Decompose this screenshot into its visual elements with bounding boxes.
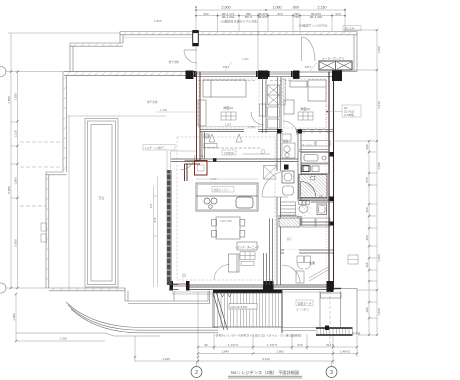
svg-text:600: 600 [293, 6, 299, 10]
misc small annotation marks [200, 57, 323, 241]
svg-text:物干金物: 物干金物 [169, 60, 180, 64]
svg-text:(S)欄間付き親子ドア(CF防): (S)欄間付き親子ドア(CF防) [221, 19, 258, 24]
svg-text:物干金物: 物干金物 [147, 100, 158, 104]
svg-text:CH=2,400: CH=2,400 [220, 219, 232, 223]
terrace door arc SW living [214, 265, 230, 281]
svg-text:1,500: 1,500 [154, 19, 162, 23]
bath (hatched) [299, 175, 327, 198]
island label box [212, 187, 234, 193]
svg-text:対面キッチン: 対面キッチン [214, 188, 230, 192]
closet west wall [201, 132, 203, 159]
svg-text:タイル貼り: タイル貼り [296, 308, 309, 312]
steel rack boxed label on terrace [143, 145, 175, 151]
svg-text:1,495: 1,495 [377, 162, 381, 170]
svg-text:150: 150 [149, 203, 153, 208]
accordion closet arcs bedroom2 [296, 129, 328, 133]
svg-text:870: 870 [277, 12, 282, 16]
svg-text:1,800: 1,800 [60, 337, 67, 341]
svg-text:760: 760 [294, 15, 299, 19]
balcony pillar [193, 31, 199, 46]
black wall blocks on east wall [329, 152, 335, 157]
svg-text:UB: UB [319, 194, 323, 198]
svg-text:1,455: 1,455 [377, 254, 381, 262]
svg-text:3: 3 [330, 370, 333, 376]
svg-text:1,500: 1,500 [7, 96, 11, 104]
boxed note top right [343, 26, 361, 31]
bedroom1 / closet wall [262, 77, 264, 133]
svg-text:1,760: 1,760 [248, 125, 255, 129]
svg-text:98+870: 98+870 [258, 15, 268, 19]
svg-text:655: 655 [365, 262, 369, 267]
svg-text:外水栓: 外水栓 [352, 332, 361, 336]
maroon corner box [195, 161, 208, 176]
PS hatched strip between bedrooms [281, 79, 285, 105]
svg-text:玄関: 玄関 [309, 260, 315, 265]
svg-text:≡スチール物干◯: ≡スチール物干◯ [145, 146, 166, 150]
svg-text:1,365: 1,365 [160, 108, 167, 112]
svg-text:1,137.5: 1,137.5 [228, 343, 238, 347]
grid circle 2 [191, 367, 202, 378]
parapet top stepped double line [120, 31, 357, 33]
toilet bottom [298, 221, 333, 223]
svg-text:(S)確認サッシ(W760): (S)確認サッシ(W760) [299, 23, 328, 28]
svg-text:キッチン: キッチン [302, 143, 313, 147]
svg-text:1,747.5: 1,747.5 [267, 343, 277, 347]
south wall with windows [169, 274, 334, 294]
svg-text:1,464.5: 1,464.5 [340, 350, 350, 354]
svg-text:洗面: 洗面 [283, 139, 289, 143]
svg-text:3,410: 3,410 [377, 101, 381, 109]
grid circle left top [0, 67, 6, 77]
svg-text:988.5: 988.5 [223, 65, 230, 69]
door gaps [244, 129, 258, 133]
entrance hall west wall [270, 219, 273, 286]
svg-text:1,100: 1,100 [377, 46, 381, 54]
parapet inner thin line [123, 36, 193, 38]
svg-text:90: 90 [204, 343, 208, 347]
west wall upper (bedroom1) [185, 72, 201, 182]
porch step hatched strip [316, 326, 353, 336]
washroom bottom wall [278, 215, 301, 217]
east wall [329, 72, 334, 291]
svg-text:布団収納: 布団収納 [224, 151, 235, 155]
in-room dim line bedroom1 [201, 62, 317, 127]
svg-text:1,460: 1,460 [377, 308, 381, 316]
svg-text:WIC: WIC [200, 154, 205, 158]
svg-text:240×16=3,840: 240×16=3,840 [231, 305, 248, 309]
svg-text:2: 2 [195, 370, 198, 376]
svg-text:2,150: 2,150 [318, 6, 327, 10]
svg-text:970: 970 [335, 12, 340, 16]
svg-text:(7.58坪): (7.58坪) [344, 113, 354, 117]
bath bottom [298, 198, 333, 200]
small PS box on east wall exterior [348, 255, 358, 264]
bath west wall [297, 133, 299, 225]
site boundary bottom line [16, 332, 105, 334]
north wall over terrace [64, 72, 197, 76]
terrace west wall [62, 72, 64, 173]
svg-text:815: 815 [153, 217, 157, 222]
svg-text:98+1,060: 98+1,060 [310, 15, 323, 19]
corridor west wall [276, 133, 278, 285]
svg-text:350: 350 [365, 235, 369, 240]
tatami boxes [221, 112, 313, 266]
svg-text:No.□ レジデンス（1階） 平面詳細図: No.□ レジデンス（1階） 平面詳細図 [231, 369, 299, 376]
svg-text:2,865: 2,865 [14, 239, 18, 247]
west wall lower (living, dark band) [167, 170, 172, 285]
kitchen counter boxes [301, 153, 330, 174]
svg-text:1,800: 1,800 [12, 313, 16, 321]
svg-text:1,100: 1,100 [210, 177, 217, 181]
svg-text:リビング・ダイニング: リビング・ダイニング [235, 245, 260, 249]
entrance wall [281, 249, 333, 251]
svg-text:600: 600 [365, 144, 369, 149]
balcony door arc [184, 50, 197, 63]
svg-text:1,110: 1,110 [14, 130, 18, 138]
terrace paving lines [20, 116, 197, 288]
svg-text:988.5: 988.5 [305, 65, 312, 69]
hatch ticks inside parapet double lines [46, 32, 350, 291]
NE corner vertical [356, 32, 358, 72]
svg-text:1,495: 1,495 [162, 357, 170, 361]
svg-text:洋室(2): 洋室(2) [300, 106, 310, 111]
svg-text:2,900: 2,900 [222, 6, 231, 10]
svg-text:250: 250 [365, 207, 369, 212]
svg-text:1,905: 1,905 [276, 350, 284, 354]
svg-text:970: 970 [297, 343, 302, 347]
svg-text:SD-2⑭: SD-2⑭ [345, 26, 355, 31]
svg-text:875: 875 [365, 177, 369, 182]
svg-text:洋室(1): 洋室(1) [223, 105, 233, 110]
closet / bedroom2 wall [277, 77, 279, 133]
svg-text:メーターボックス: メーターボックス [322, 57, 344, 61]
grid circle 3 [326, 367, 337, 378]
svg-text:1,060: 1,060 [273, 6, 282, 10]
svg-text:8,880: 8,880 [7, 186, 11, 194]
svg-text:1,865: 1,865 [14, 177, 18, 185]
shoe cabinet hatched + boxes [279, 218, 300, 227]
X-crossed box (shaft) [264, 166, 278, 180]
wall stub near south windows [263, 253, 265, 285]
laundry / cabinet boxes near entrance [296, 256, 311, 283]
svg-text:枕棚: 枕棚 [205, 134, 211, 138]
svg-text:5,410: 5,410 [262, 357, 270, 361]
svg-text:390: 390 [365, 307, 369, 312]
svg-text:─外壁Rシリンダー(?)外壁タイル貼り(ロ) ※タイル・ク: ─外壁Rシリンダー(?)外壁タイル貼り(ロ) ※タイル・クシ目(仕様参照) [213, 334, 302, 338]
svg-text:2,620: 2,620 [225, 123, 232, 127]
window lines from wall band to south [171, 170, 173, 285]
grid circle left bottom [0, 283, 6, 293]
svg-text:玄関ポーチ: 玄関ポーチ [298, 302, 312, 306]
south of bedrooms [200, 128, 333, 130]
hatch ticks north wall over terrace [67, 72, 189, 75]
svg-text:1,180: 1,180 [14, 93, 18, 101]
terrace south wall [46, 287, 125, 289]
counter line right of band [243, 153, 270, 155]
north wall with windows [186, 71, 343, 82]
svg-text:1,940: 1,940 [221, 350, 229, 354]
svg-text:芝生: 芝生 [98, 195, 104, 200]
svg-text:900: 900 [203, 12, 208, 16]
entrance step diagonals [309, 266, 330, 281]
svg-text:2,400: 2,400 [242, 57, 249, 61]
WIC band bottom [171, 158, 298, 160]
dimension slash ticks [10, 29, 378, 362]
small boxes on left site wall [20, 206, 47, 242]
svg-text:廊下: 廊下 [287, 237, 293, 241]
